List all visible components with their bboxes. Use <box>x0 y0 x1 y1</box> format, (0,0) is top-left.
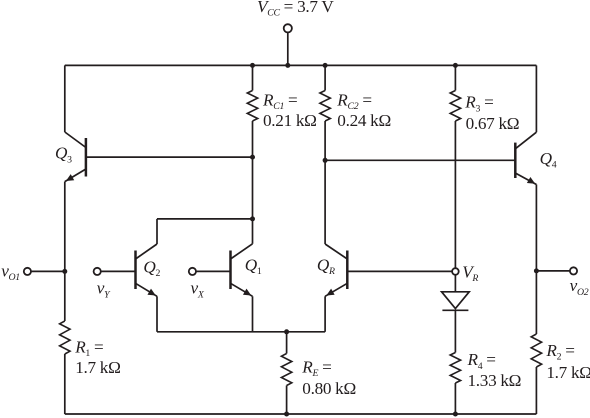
resistor RC1 zigzag <box>247 91 257 122</box>
wire right rail down from top (Q4 collector) <box>535 65 537 132</box>
terminal vO2 <box>570 267 577 274</box>
wire Q2 collector to node <box>157 218 253 220</box>
wire Q2 emitter down <box>156 296 158 332</box>
transistor Q3 emitter arrow <box>66 174 74 181</box>
svg-text:1.7 kΩ: 1.7 kΩ <box>546 363 590 382</box>
transistor QR collector diagonal <box>325 244 347 259</box>
wire RC1 bottom lead to Q1 collector <box>252 121 254 244</box>
wire Q4 base from RC2 node <box>325 159 515 161</box>
resistor R4 zigzag <box>450 353 460 384</box>
node RC2 top junction <box>323 63 328 68</box>
transistor Q1 emitter arrow <box>243 289 251 296</box>
transistor Q4 emitter arrow <box>527 177 535 184</box>
Vcc supply terminal <box>284 24 292 32</box>
svg-text:0.67 kΩ: 0.67 kΩ <box>466 114 520 133</box>
wire Q3 base to RC1 node <box>86 156 253 158</box>
svg-text:1.33 kΩ: 1.33 kΩ <box>468 371 522 390</box>
node collector node junction <box>250 216 255 221</box>
wire left rail down from top (Q3 collector) <box>64 65 66 132</box>
svg-text:0.21 kΩ: 0.21 kΩ <box>263 111 317 130</box>
svg-text:vY​: vY​ <box>97 279 111 301</box>
wire Q2 collector up <box>156 219 158 244</box>
transistor Q3 emitter diagonal <box>65 169 86 182</box>
wire emitter bus <box>157 331 325 333</box>
resistor RC2 zigzag <box>320 91 330 122</box>
wire bottom rail <box>65 413 537 415</box>
transistor Q3 collector diagonal <box>65 132 86 148</box>
transistor QR emitter arrow <box>326 289 334 296</box>
node RC1 top junction <box>250 63 255 68</box>
wire R3 top lead <box>454 65 456 90</box>
terminal vY <box>94 268 101 275</box>
terminal VR node <box>452 268 459 275</box>
transistor QR emitter diagonal <box>325 283 347 296</box>
node Q3 base junction <box>250 155 255 160</box>
wire R4 bottom lead <box>454 383 456 414</box>
resistor RE zigzag <box>281 354 291 386</box>
terminal vO1 <box>24 268 31 275</box>
wire Q4 emitter down to vO2 node <box>535 185 537 335</box>
resistor R1 zigzag <box>60 321 70 354</box>
wire Q3 emitter down to vO1 node <box>64 182 66 321</box>
node R3 top junction <box>453 63 458 68</box>
wire top supply rail <box>65 64 537 66</box>
wire R3 bottom lead to VR <box>454 121 456 268</box>
wire QR emitter down <box>324 296 326 332</box>
diode D1 triangle <box>442 292 470 309</box>
node Vcc junction <box>285 63 290 68</box>
transistor Q1 collector diagonal <box>231 244 253 259</box>
transistor Q1 emitter diagonal <box>231 283 253 296</box>
wire R1 to bottom rail <box>64 354 66 414</box>
resistor R2 zigzag <box>531 334 541 367</box>
wire RC1 top lead <box>252 65 254 90</box>
wire RE top lead <box>286 332 288 354</box>
transistor Q2 emitter arrow <box>147 289 155 296</box>
wire diode to R4 <box>454 310 456 352</box>
wire Q1 emitter down <box>252 296 254 332</box>
transistor Q4 bar <box>514 143 517 178</box>
transistor Q3 bar <box>85 138 88 177</box>
transistor Q2 bar <box>134 251 137 290</box>
transistor Q2 collector diagonal <box>136 244 158 259</box>
wire RC2 bottom lead to QR collector <box>324 121 326 244</box>
transistor Q2 emitter diagonal <box>136 283 158 296</box>
diode D1 cathode bar <box>442 309 468 311</box>
wire vX to Q1 base <box>196 270 231 272</box>
node Q4 base junction <box>323 158 328 163</box>
wire Vcc to top rail <box>287 32 289 65</box>
resistor R3 zigzag <box>450 91 460 122</box>
transistor QR bar <box>346 251 349 290</box>
svg-text:1.7 kΩ: 1.7 kΩ <box>75 358 120 377</box>
node RE junction <box>284 329 289 334</box>
svg-text:0.24 kΩ: 0.24 kΩ <box>337 111 391 130</box>
transistor Q4 emitter diagonal <box>515 173 536 185</box>
wire RC2 top lead <box>324 65 326 90</box>
wire VR to diode <box>454 275 456 292</box>
svg-text:0.80 kΩ: 0.80 kΩ <box>302 379 356 398</box>
wire R2 to bottom rail <box>535 367 537 414</box>
transistor Q1 bar <box>229 251 232 290</box>
transistor Q4 collector diagonal <box>515 132 536 149</box>
wire vY to Q2 base <box>101 270 136 272</box>
node vO2 junction <box>534 268 539 273</box>
node R4 bottom junction <box>453 412 458 417</box>
node RE bottom junction <box>284 412 289 417</box>
node vO1 junction <box>62 269 67 274</box>
wire RE bottom lead <box>286 386 288 415</box>
wire QR base to VR <box>347 270 452 272</box>
wire vO2 node to terminal <box>536 270 570 272</box>
wire vO1 terminal to node <box>31 270 65 272</box>
terminal vX <box>189 268 196 275</box>
